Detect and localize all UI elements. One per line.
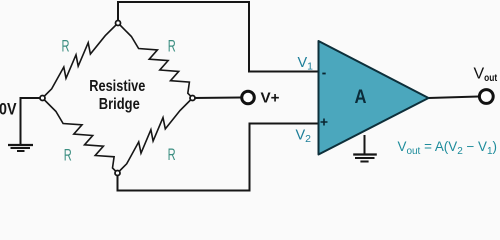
svg-text:0V: 0V	[0, 100, 17, 119]
svg-text:R: R	[168, 145, 176, 164]
svg-text:R: R	[62, 37, 70, 56]
svg-text:R: R	[64, 146, 72, 165]
svg-text:R: R	[168, 37, 176, 56]
svg-text:Resistive: Resistive	[89, 78, 145, 95]
svg-text:A: A	[355, 87, 367, 108]
svg-text:V+: V+	[261, 90, 280, 107]
svg-text:Bridge: Bridge	[99, 96, 140, 113]
